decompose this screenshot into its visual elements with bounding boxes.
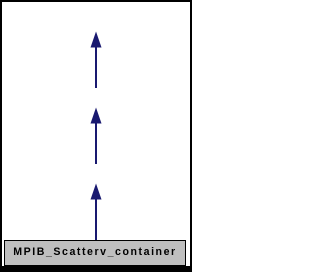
- node MPIB_Scatterv_container (box): [5, 241, 186, 266]
- frame border: [1, 1, 191, 271]
- inheritance arrow 3 (bottom): [91, 184, 102, 241]
- image frame: [0, 0, 192, 272]
- svg-text:MPIB_Scatterv_container: MPIB_Scatterv_container: [13, 246, 176, 258]
- inheritance arrow 2 (middle): [91, 108, 102, 165]
- frame bottom band: [0, 266, 192, 272]
- inheritance arrow 1 (top): [91, 32, 102, 89]
